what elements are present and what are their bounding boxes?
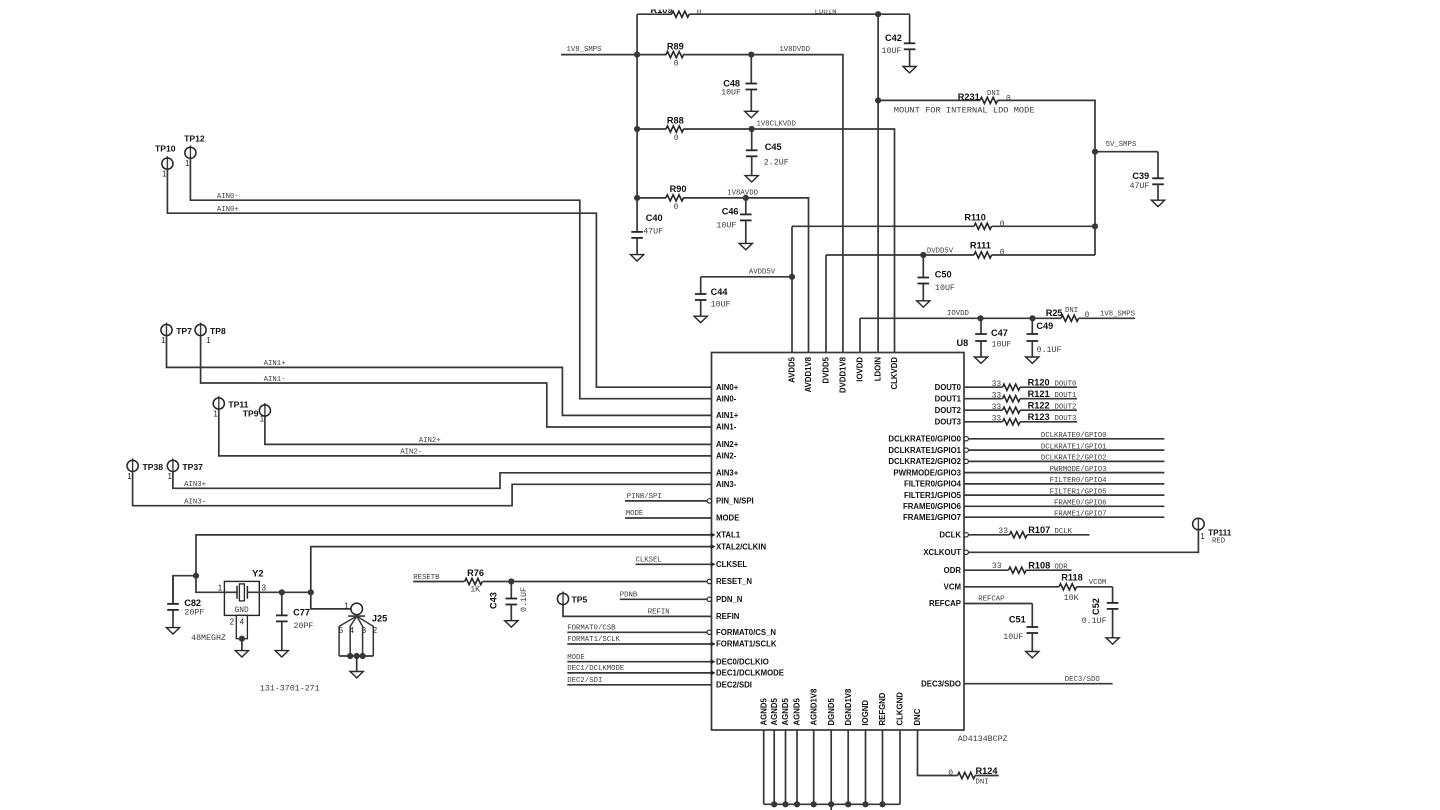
svg-text:LDOIN: LDOIN: [873, 357, 882, 382]
svg-text:4: 4: [349, 626, 354, 635]
svg-text:1: 1: [206, 336, 211, 345]
svg-text:AGND1V8: AGND1V8: [809, 688, 818, 725]
svg-text:DCLKRATE1/GPIO1: DCLKRATE1/GPIO1: [1041, 443, 1107, 451]
svg-text:FRAME0/GPIO6: FRAME0/GPIO6: [903, 502, 962, 511]
svg-text:R76: R76: [467, 568, 484, 578]
svg-text:TP111: TP111: [1208, 529, 1232, 538]
svg-text:MOUNT FOR INTERNAL LDO MODE: MOUNT FOR INTERNAL LDO MODE: [894, 106, 1035, 116]
svg-text:10UF: 10UF: [716, 222, 736, 231]
svg-text:FORMAT0/CS_N: FORMAT0/CS_N: [716, 628, 776, 637]
svg-text:R111: R111: [970, 240, 991, 250]
svg-text:2: 2: [373, 626, 378, 635]
svg-text:AVDD5: AVDD5: [788, 356, 797, 383]
svg-text:5: 5: [339, 626, 344, 635]
svg-text:1: 1: [344, 602, 349, 611]
svg-text:AIN2-: AIN2-: [716, 452, 737, 461]
svg-text:DEC2/SDI: DEC2/SDI: [567, 677, 602, 685]
svg-text:PDNB: PDNB: [620, 592, 638, 600]
svg-text:DCLKRATE1/GPIO1: DCLKRATE1/GPIO1: [888, 446, 961, 455]
svg-text:1: 1: [1200, 532, 1205, 541]
svg-text:PINB/SPI: PINB/SPI: [627, 493, 662, 501]
svg-text:10UF: 10UF: [935, 284, 955, 293]
svg-text:R124: R124: [976, 766, 999, 776]
svg-text:J25: J25: [372, 614, 387, 624]
svg-text:C44: C44: [711, 287, 729, 297]
svg-text:5V_SMPS: 5V_SMPS: [1106, 141, 1137, 149]
svg-text:0: 0: [674, 134, 679, 143]
svg-text:DCLK: DCLK: [1055, 528, 1073, 536]
svg-text:CLKVDD: CLKVDD: [890, 357, 899, 390]
svg-text:20PF: 20PF: [184, 609, 204, 618]
svg-text:DEC3/SDO: DEC3/SDO: [1065, 676, 1101, 684]
svg-text:CLKGND: CLKGND: [896, 692, 905, 726]
svg-text:XCLKOUT: XCLKOUT: [923, 548, 961, 557]
svg-text:DGND1V8: DGND1V8: [844, 688, 853, 725]
svg-text:2: 2: [230, 618, 235, 627]
svg-text:DCLKRATE2/GPIO2: DCLKRATE2/GPIO2: [1041, 455, 1107, 463]
svg-text:0: 0: [1085, 311, 1090, 320]
svg-text:AIN3-: AIN3-: [716, 480, 737, 489]
svg-text:DOUT3: DOUT3: [1055, 415, 1077, 423]
svg-text:REFCAP: REFCAP: [929, 599, 961, 608]
svg-text:0: 0: [1000, 249, 1005, 258]
svg-text:DCLKRATE0/GPIO0: DCLKRATE0/GPIO0: [888, 435, 961, 444]
svg-text:AIN2+: AIN2+: [419, 437, 441, 445]
svg-text:VCM: VCM: [944, 583, 961, 592]
svg-text:AIN0+: AIN0+: [217, 206, 239, 214]
svg-text:1: 1: [213, 410, 218, 419]
svg-text:DNI: DNI: [987, 90, 1000, 98]
svg-text:47UF: 47UF: [643, 228, 663, 237]
svg-text:R231: R231: [958, 92, 980, 102]
svg-text:DNI: DNI: [1065, 307, 1078, 315]
svg-text:1: 1: [162, 170, 167, 179]
svg-text:R107: R107: [1028, 525, 1050, 535]
svg-text:1V8CLKVDD: 1V8CLKVDD: [757, 121, 797, 129]
svg-text:IOGND: IOGND: [861, 700, 870, 726]
svg-text:0: 0: [1006, 94, 1011, 103]
svg-text:DEC3/SDO: DEC3/SDO: [921, 679, 961, 688]
svg-text:XTAL2/CLKIN: XTAL2/CLKIN: [716, 542, 766, 551]
svg-text:AGND5: AGND5: [770, 698, 779, 726]
svg-text:FRAME1/GPIO7: FRAME1/GPIO7: [1054, 510, 1107, 518]
svg-text:DGND5: DGND5: [827, 698, 836, 726]
svg-text:R120: R120: [1028, 377, 1050, 387]
svg-text:REFIN: REFIN: [648, 609, 670, 617]
svg-text:RED: RED: [1212, 538, 1226, 546]
svg-text:C50: C50: [935, 269, 952, 279]
svg-text:2.2UF: 2.2UF: [764, 158, 789, 167]
svg-text:C39: C39: [1132, 171, 1149, 181]
svg-text:AD4134BCPZ: AD4134BCPZ: [958, 735, 1008, 744]
svg-text:20PF: 20PF: [294, 622, 314, 631]
svg-text:131-3701-271: 131-3701-271: [260, 685, 320, 694]
svg-text:Y2: Y2: [252, 569, 263, 579]
svg-text:AIN3-: AIN3-: [184, 498, 206, 506]
svg-text:ODR: ODR: [1055, 563, 1069, 571]
svg-text:FORMAT1/SCLK: FORMAT1/SCLK: [567, 636, 620, 644]
svg-text:AIN2-: AIN2-: [400, 449, 422, 457]
svg-text:10UF: 10UF: [882, 47, 902, 56]
svg-text:C52: C52: [1091, 598, 1101, 615]
svg-text:U8: U8: [957, 338, 969, 348]
svg-text:C49: C49: [1036, 321, 1053, 331]
svg-text:0.1UF: 0.1UF: [1082, 617, 1107, 626]
svg-text:DVDD5V: DVDD5V: [927, 247, 954, 255]
svg-text:TP5: TP5: [572, 594, 588, 604]
svg-text:MODE: MODE: [716, 514, 739, 523]
svg-text:TP9: TP9: [243, 409, 259, 419]
svg-text:REFIN: REFIN: [716, 612, 740, 621]
svg-text:AIN3+: AIN3+: [716, 469, 739, 478]
svg-text:R122: R122: [1028, 400, 1050, 410]
svg-text:47UF: 47UF: [1130, 182, 1150, 191]
svg-text:1V8AVDD: 1V8AVDD: [727, 190, 758, 198]
svg-text:33: 33: [992, 403, 1002, 412]
svg-text:CLKSEL: CLKSEL: [716, 560, 747, 569]
svg-text:C47: C47: [991, 328, 1008, 338]
svg-text:TP7: TP7: [176, 326, 192, 336]
svg-text:DNI: DNI: [976, 779, 989, 787]
svg-text:DOUT3: DOUT3: [935, 418, 962, 427]
svg-text:R123: R123: [1028, 412, 1050, 422]
svg-text:1V8DVDD: 1V8DVDD: [779, 46, 810, 54]
svg-text:1: 1: [161, 336, 166, 345]
svg-text:TP8: TP8: [210, 326, 226, 336]
svg-text:DCLKRATE2/GPIO2: DCLKRATE2/GPIO2: [888, 457, 961, 466]
svg-text:PWRMODE/GPIO3: PWRMODE/GPIO3: [1050, 466, 1107, 474]
svg-text:PIN_N/SPI: PIN_N/SPI: [716, 497, 754, 506]
svg-text:33: 33: [998, 527, 1008, 536]
svg-text:0.1UF: 0.1UF: [520, 587, 529, 612]
svg-text:AIN0+: AIN0+: [716, 383, 739, 392]
svg-text:MODE: MODE: [567, 654, 585, 662]
svg-text:DEC1/DCLKMODE: DEC1/DCLKMODE: [716, 669, 784, 678]
svg-text:VCOM: VCOM: [1089, 579, 1107, 587]
svg-text:1: 1: [185, 159, 190, 168]
svg-text:AIN1+: AIN1+: [264, 360, 286, 368]
svg-text:33: 33: [992, 562, 1002, 571]
svg-text:GND: GND: [235, 607, 249, 615]
svg-text:C43: C43: [489, 592, 499, 609]
svg-text:C40: C40: [646, 213, 663, 223]
svg-text:XTAL1: XTAL1: [716, 531, 741, 540]
svg-text:R90: R90: [670, 184, 687, 194]
svg-text:0: 0: [674, 60, 679, 69]
svg-text:DOUT2: DOUT2: [1055, 403, 1077, 411]
svg-text:R118: R118: [1061, 572, 1082, 582]
svg-text:FILTER1/GPIO5: FILTER1/GPIO5: [904, 491, 962, 500]
svg-text:IOVDD: IOVDD: [947, 310, 970, 318]
svg-text:ODR: ODR: [944, 566, 962, 575]
svg-text:0.1UF: 0.1UF: [1037, 346, 1062, 355]
svg-text:C77: C77: [293, 608, 310, 618]
svg-text:FORMAT1/SCLK: FORMAT1/SCLK: [716, 640, 777, 649]
svg-text:DVDD5: DVDD5: [822, 356, 831, 383]
svg-text:DEC1/DCLKMODE: DEC1/DCLKMODE: [567, 665, 624, 673]
svg-text:PWRMODE/GPIO3: PWRMODE/GPIO3: [893, 468, 961, 477]
svg-text:1V8_SMPS: 1V8_SMPS: [1100, 310, 1136, 318]
svg-text:RESET_N: RESET_N: [716, 577, 752, 586]
svg-text:C42: C42: [885, 33, 902, 43]
svg-text:PDN_N: PDN_N: [716, 595, 743, 604]
svg-text:REFGND: REFGND: [878, 692, 887, 725]
svg-text:AGND5: AGND5: [759, 698, 768, 726]
svg-text:IOVDD: IOVDD: [856, 357, 865, 382]
svg-text:R110: R110: [964, 213, 985, 223]
svg-text:FRAME0/GPIO6: FRAME0/GPIO6: [1054, 500, 1107, 508]
svg-text:DCLKRATE0/GPIO0: DCLKRATE0/GPIO0: [1041, 432, 1107, 440]
svg-text:0: 0: [948, 769, 953, 778]
svg-text:AIN3+: AIN3+: [184, 481, 206, 489]
svg-text:R108: R108: [1028, 561, 1050, 571]
svg-text:1K: 1K: [470, 585, 480, 594]
svg-text:R25: R25: [1046, 308, 1063, 318]
svg-text:AVDD1V8: AVDD1V8: [804, 356, 813, 392]
svg-text:REFCAP: REFCAP: [978, 596, 1004, 604]
svg-text:R121: R121: [1028, 389, 1050, 399]
svg-text:AIN1-: AIN1-: [716, 423, 737, 432]
svg-text:R88: R88: [667, 116, 684, 126]
svg-text:FILTER1/GPIO5: FILTER1/GPIO5: [1050, 488, 1107, 496]
svg-text:3: 3: [362, 626, 367, 635]
svg-text:10K: 10K: [1064, 594, 1079, 603]
svg-text:DCLK: DCLK: [939, 531, 961, 540]
svg-text:AVDD5V: AVDD5V: [749, 268, 776, 276]
svg-text:48MEGHZ: 48MEGHZ: [191, 634, 226, 643]
svg-text:DVDD1V8: DVDD1V8: [839, 356, 848, 393]
svg-text:DOUT1: DOUT1: [935, 394, 962, 403]
svg-text:FILTER0/GPIO4: FILTER0/GPIO4: [1050, 477, 1108, 485]
svg-text:C82: C82: [184, 598, 201, 608]
svg-text:10UF: 10UF: [721, 89, 741, 98]
svg-text:FILTER0/GPIO4: FILTER0/GPIO4: [904, 480, 962, 489]
svg-text:1: 1: [168, 472, 173, 481]
svg-text:AIN1+: AIN1+: [716, 411, 739, 420]
svg-text:MODE: MODE: [626, 510, 644, 518]
svg-text:R89: R89: [667, 41, 684, 51]
svg-text:33: 33: [992, 415, 1002, 424]
svg-text:10UF: 10UF: [992, 341, 1012, 350]
svg-text:DOUT0: DOUT0: [935, 383, 962, 392]
svg-text:1V8_SMPS: 1V8_SMPS: [567, 46, 603, 54]
svg-text:DEC0/DCLKIO: DEC0/DCLKIO: [716, 657, 769, 666]
svg-text:RESETB: RESETB: [413, 574, 440, 582]
svg-text:1: 1: [218, 584, 223, 593]
svg-text:TP10: TP10: [155, 144, 176, 154]
svg-text:FRAME1/GPIO7: FRAME1/GPIO7: [903, 513, 961, 522]
svg-text:AIN0-: AIN0-: [716, 394, 737, 403]
svg-text:33: 33: [992, 380, 1002, 389]
svg-text:AGND5: AGND5: [793, 698, 802, 726]
svg-text:CLKSEL: CLKSEL: [636, 557, 662, 565]
svg-text:C46: C46: [722, 206, 739, 216]
svg-text:AIN1-: AIN1-: [264, 376, 286, 384]
svg-text:10UF: 10UF: [1003, 633, 1023, 642]
svg-text:3: 3: [262, 584, 267, 593]
svg-text:4: 4: [240, 618, 245, 627]
svg-text:AGND5: AGND5: [781, 698, 790, 726]
svg-text:DOUT0: DOUT0: [1055, 380, 1077, 388]
svg-text:0: 0: [1000, 220, 1005, 229]
svg-text:TP12: TP12: [184, 134, 205, 144]
svg-text:1: 1: [127, 472, 132, 481]
svg-text:AIN0-: AIN0-: [217, 193, 239, 201]
svg-text:C48: C48: [723, 79, 740, 89]
svg-text:10UF: 10UF: [711, 301, 731, 310]
svg-text:FORMAT0/CSB: FORMAT0/CSB: [567, 625, 616, 633]
svg-text:DOUT1: DOUT1: [1055, 392, 1078, 400]
svg-text:DOUT2: DOUT2: [935, 406, 962, 415]
svg-text:DNC: DNC: [913, 708, 922, 725]
svg-text:TP37: TP37: [182, 462, 203, 472]
svg-text:0: 0: [674, 203, 679, 212]
svg-text:C45: C45: [765, 142, 782, 152]
svg-text:33: 33: [992, 392, 1002, 401]
svg-text:C51: C51: [1009, 614, 1026, 624]
svg-text:DEC2/SDI: DEC2/SDI: [716, 681, 752, 690]
svg-text:AIN2+: AIN2+: [716, 440, 739, 449]
svg-text:TP38: TP38: [143, 462, 164, 472]
